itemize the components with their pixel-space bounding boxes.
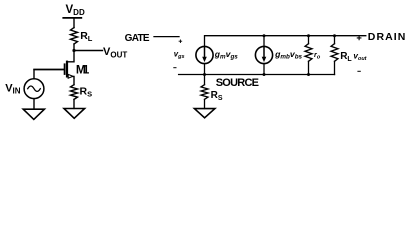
svg-text:RS: RS xyxy=(211,90,223,102)
wire gmb top stub xyxy=(263,36,265,47)
svg-text:ro: ro xyxy=(314,50,321,61)
wire VIN to ground xyxy=(33,99,35,110)
svg-text:VOUT: VOUT xyxy=(103,46,127,59)
svg-text:RL: RL xyxy=(340,51,352,63)
svg-text:vout: vout xyxy=(353,51,367,62)
node VOUT junction dot xyxy=(72,49,75,52)
current source gm vgs circle xyxy=(196,46,213,63)
resistor ro xyxy=(305,44,312,62)
wire RS to ground xyxy=(73,99,75,108)
junction dot gmb bottom xyxy=(263,73,266,76)
wire RL to drain node xyxy=(73,44,75,51)
junction dot RL top xyxy=(333,34,336,37)
transistor M1 gate bar xyxy=(64,64,66,74)
plus vout xyxy=(357,36,361,40)
ground (left RS) xyxy=(64,109,85,119)
wire VIN to gate xyxy=(34,70,63,79)
junction dot ro top xyxy=(307,34,310,37)
ground (VIN) xyxy=(23,109,44,119)
current source gmb vbs circle xyxy=(255,46,272,63)
svg-text:RL: RL xyxy=(80,30,93,43)
transistor M1 source arrow xyxy=(68,74,73,78)
wire gate lead xyxy=(34,69,64,71)
svg-text:SOURCE: SOURCE xyxy=(216,77,259,89)
transistor M1 source lead xyxy=(67,76,74,84)
svg-text:gmvgs: gmvgs xyxy=(214,49,239,61)
wire node to drain xyxy=(67,51,74,62)
wire ro bottom stub xyxy=(308,61,310,74)
wire VDD to RL xyxy=(73,18,75,28)
svg-text:vgs: vgs xyxy=(174,49,185,60)
wire gmb bottom stub xyxy=(263,64,265,75)
current source gm vgs arrow xyxy=(204,48,206,58)
bottom rail (source) xyxy=(179,74,335,76)
resistor RS (left) xyxy=(71,85,78,100)
resistor RS (right) xyxy=(201,85,208,100)
source VIN sine xyxy=(28,86,41,91)
resistor RL (right) xyxy=(331,44,338,62)
junction dot RS right xyxy=(203,73,206,76)
svg-text:RS: RS xyxy=(80,85,93,98)
top rail (drain) xyxy=(205,36,366,47)
minus vgs xyxy=(174,67,176,69)
source VIN circle xyxy=(24,79,44,99)
power VDD bar xyxy=(63,17,81,19)
wire node to VOUT label xyxy=(74,50,103,52)
wire ro top stub xyxy=(308,36,310,44)
current source gmb vbs arrow xyxy=(263,48,265,58)
svg-text:VIN: VIN xyxy=(5,82,21,95)
minus vout xyxy=(358,70,360,72)
plus vgs xyxy=(179,40,182,43)
wire RL bottom stub xyxy=(334,61,336,74)
junction dot ro bottom xyxy=(307,73,310,76)
wire RS right to ground xyxy=(204,99,206,108)
svg-text:DRAIN: DRAIN xyxy=(368,31,406,43)
svg-text:GATE: GATE xyxy=(125,33,150,44)
svg-text:gmbvbs: gmbvbs xyxy=(274,49,302,61)
wire RL top stub xyxy=(334,36,336,44)
junction dot gmb top xyxy=(263,34,266,37)
resistor RL (left) xyxy=(71,28,78,44)
ground (right RS) xyxy=(194,109,215,118)
wire rail to RS right xyxy=(204,75,206,85)
svg-text:M1: M1 xyxy=(76,62,90,76)
wire gm source to bottom rail xyxy=(204,64,206,75)
svg-text:VDD: VDD xyxy=(66,4,85,17)
transistor M1 channel bar xyxy=(66,62,68,77)
wire gate open lead xyxy=(154,36,179,38)
